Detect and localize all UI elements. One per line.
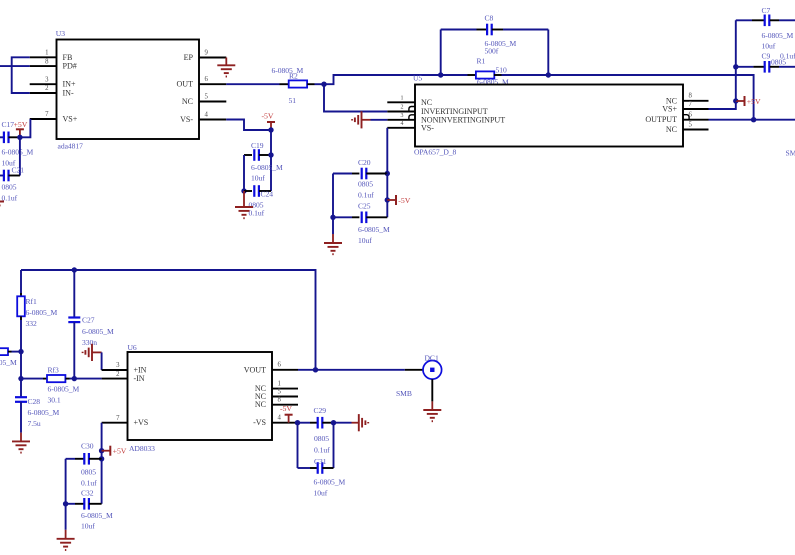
wire lower feedback top — [21, 270, 316, 370]
junction C27 bottom — [72, 376, 77, 381]
label C17 value 10uf — [2, 159, 16, 168]
svg-text:6-0805_M: 6-0805_M — [314, 478, 346, 487]
wire C29 to C31 right — [333, 423, 335, 468]
svg-text:VS-: VS- — [180, 115, 193, 124]
connector DC1 — [423, 361, 442, 380]
wire C20 down left — [332, 174, 334, 218]
junction -5V node — [268, 127, 273, 132]
svg-text:DC1: DC1 — [425, 354, 439, 363]
wire ground to pin 3 — [371, 119, 388, 121]
capacitor C7 — [736, 15, 795, 27]
wire Rg node down — [20, 352, 22, 379]
svg-text:6: 6 — [278, 362, 282, 369]
U5 pin 2 INVERTINGINPUT — [387, 105, 488, 116]
ground below C21 (clipped) — [0, 202, 4, 213]
capacitor C20 — [333, 168, 387, 180]
svg-text:OUT: OUT — [177, 80, 194, 89]
wire VOUT to DC1 — [298, 369, 405, 371]
label DC1 part SMB — [396, 389, 412, 398]
U6 pin 5 NC — [255, 388, 298, 401]
U5 pin 5 NC — [666, 121, 709, 134]
capacitor C32 — [66, 498, 102, 510]
wire C17 to C21 — [19, 137, 21, 175]
svg-text:1: 1 — [401, 96, 404, 102]
U5 pin 6 OUTPUT — [645, 112, 708, 125]
svg-text:+5V: +5V — [113, 447, 127, 456]
power +5V at U5 — [736, 96, 761, 106]
U6 pin 7 +VS — [102, 415, 149, 427]
svg-text:-5V: -5V — [398, 196, 410, 205]
junction feedback right — [546, 72, 551, 77]
label C32 footprint 6-0805_M — [81, 511, 113, 520]
svg-text:PD#: PD# — [63, 62, 77, 71]
label U3 part ada4817 — [58, 142, 84, 151]
ground at U3 EP — [217, 58, 235, 77]
wire FB to IN- — [12, 57, 30, 93]
U3 pin 3 IN+ — [30, 76, 76, 88]
svg-text:0805: 0805 — [358, 180, 373, 189]
label C7 value 10uf — [762, 42, 776, 51]
label C31 designator — [314, 457, 327, 466]
svg-text:C21: C21 — [12, 166, 25, 175]
label C9 footprint 0805 — [771, 58, 786, 67]
svg-text:U5: U5 — [413, 74, 422, 83]
wire input to PD# — [0, 65, 30, 67]
svg-text:0805: 0805 — [81, 468, 96, 477]
label C25 footprint 6-0805_M — [358, 225, 390, 234]
svg-text:VOUT: VOUT — [244, 365, 266, 374]
svg-text:330n: 330n — [82, 338, 97, 347]
label C32 value 10uf — [81, 522, 95, 531]
svg-text:FB: FB — [63, 53, 73, 62]
power +5V at U6 — [99, 446, 127, 456]
junction -VS node — [295, 420, 300, 425]
ground below C32 — [57, 504, 75, 550]
ground below DC1 — [423, 401, 441, 421]
U6 pin 6 VOUT — [244, 362, 298, 375]
label R2 value 51 — [289, 96, 297, 105]
label C17 footprint 6-0805_M — [2, 148, 34, 157]
U6 pin 2 -IN — [102, 371, 145, 383]
capacitor C21 — [0, 170, 20, 182]
label C30 footprint 0805 — [81, 468, 96, 477]
svg-text:NC: NC — [666, 125, 677, 134]
svg-text:3: 3 — [116, 362, 120, 369]
resistor R1 — [441, 71, 549, 78]
svg-text:C30: C30 — [81, 442, 94, 451]
label C8 designator — [485, 14, 494, 23]
svg-text:C27: C27 — [82, 316, 95, 325]
svg-text:500f: 500f — [485, 47, 499, 56]
svg-text:0.1uf: 0.1uf — [249, 209, 265, 218]
wire C17 node to U3 VS+ — [20, 119, 31, 137]
label C25 designator — [358, 202, 371, 211]
ground at U5 pin 3 — [352, 111, 370, 128]
junction C9 node — [733, 64, 738, 69]
svg-text:0.1uf: 0.1uf — [314, 446, 330, 455]
svg-text:7: 7 — [689, 101, 693, 108]
label C20 value 0.1uf — [358, 191, 374, 200]
svg-text:5: 5 — [689, 121, 693, 128]
power -5V at C20 — [385, 195, 411, 205]
capacitor C19 — [244, 149, 271, 161]
svg-text:-5V: -5V — [262, 112, 274, 121]
svg-text:6-0805_M: 6-0805_M — [272, 66, 304, 75]
svg-text:VS+: VS+ — [63, 115, 78, 124]
capacitor C29 — [298, 417, 334, 429]
svg-text:3: 3 — [401, 113, 404, 119]
U6 pin 4 -VS — [253, 415, 298, 428]
op-amp U6 body — [128, 352, 273, 440]
label C28 designator — [28, 397, 41, 406]
svg-text:VS+: VS+ — [662, 105, 677, 114]
svg-text:3: 3 — [45, 76, 49, 83]
junction output node — [751, 117, 756, 122]
svg-text:8: 8 — [45, 58, 49, 65]
svg-text:EP: EP — [184, 53, 194, 62]
label C19 footprint 6-0805_M — [251, 163, 283, 172]
label U3 designator — [56, 29, 65, 38]
label C25 value 10uf — [358, 236, 372, 245]
svg-text:C32: C32 — [81, 489, 94, 498]
svg-text:VS-: VS- — [421, 123, 434, 132]
U6 pin 3 +IN — [102, 362, 147, 374]
label C7 footprint 6-0805_M — [762, 31, 794, 40]
label R2 designator — [289, 72, 298, 81]
wire C19 to C24 right — [270, 155, 272, 191]
label R2 footprint 6-0805_M — [272, 66, 304, 75]
svg-text:NC: NC — [421, 98, 432, 107]
label C30 designator — [81, 442, 94, 451]
svg-text:C7: C7 — [762, 6, 771, 15]
svg-text:6-0805_M: 6-0805_M — [48, 385, 80, 394]
svg-text:OUTPUT: OUTPUT — [645, 115, 677, 124]
svg-text:10uf: 10uf — [251, 174, 265, 183]
svg-text:6-0805_M: 6-0805_M — [251, 163, 283, 172]
wire node A up to feedback — [324, 75, 441, 84]
svg-text:5: 5 — [205, 93, 209, 100]
svg-text:9: 9 — [205, 49, 209, 56]
U5 pin 1 NC — [387, 96, 432, 107]
svg-text:OPA657_D_8: OPA657_D_8 — [414, 148, 457, 157]
U5 pin 8 NC — [666, 93, 709, 106]
junction feedback left — [438, 72, 443, 77]
svg-text:0805: 0805 — [2, 183, 17, 192]
junction C24 left — [241, 188, 246, 193]
power -5V at U6 — [280, 404, 293, 423]
wire U6 +VS down — [101, 423, 103, 504]
svg-text:10uf: 10uf — [314, 489, 328, 498]
U3 pin 2 IN- — [30, 85, 74, 97]
capacitor C8 — [441, 24, 549, 36]
svg-text:7: 7 — [45, 111, 49, 118]
svg-text:6-0805_M: 6-0805_M — [762, 31, 794, 40]
power +5V at C17 — [14, 120, 28, 138]
wire U5 VS+ to +5V — [709, 101, 736, 109]
svg-text:4: 4 — [205, 111, 209, 118]
junction C29 right — [331, 420, 336, 425]
svg-text:C20: C20 — [358, 158, 371, 167]
ground at U6 +IN — [83, 344, 102, 361]
label U6 designator — [128, 343, 137, 352]
label C19 designator — [251, 141, 264, 150]
U6 pin 8 NC — [255, 397, 298, 410]
U3 pin 5 NC — [182, 93, 226, 106]
svg-text:U3: U3 — [56, 29, 65, 38]
svg-text:6-0805_M: 6-0805_M — [0, 358, 17, 367]
svg-text:4: 4 — [401, 121, 404, 127]
svg-text:IN+: IN+ — [63, 80, 76, 89]
label C28 footprint 6-0805_M — [28, 408, 60, 417]
wire C19 to C24 left — [243, 155, 245, 191]
svg-text:R2: R2 — [289, 72, 298, 81]
label C8 footprint 6-0805_M — [485, 39, 517, 48]
svg-text:C24: C24 — [261, 190, 274, 199]
svg-text:R1: R1 — [477, 57, 486, 66]
svg-text:+VS: +VS — [134, 418, 149, 427]
svg-text:30.1: 30.1 — [48, 396, 61, 405]
svg-text:C9: C9 — [762, 52, 771, 61]
svg-text:C8: C8 — [485, 14, 494, 23]
label C21 designator — [12, 166, 25, 175]
resistor Rf1 — [17, 270, 25, 352]
label U6 part AD8033 — [129, 444, 155, 453]
svg-text:2: 2 — [401, 105, 404, 111]
svg-text:51: 51 — [289, 96, 297, 105]
junction Rf3 left — [18, 376, 23, 381]
svg-text:8: 8 — [278, 397, 282, 404]
label C21 value 0.1uf — [2, 194, 18, 203]
junction C30 right — [99, 456, 104, 461]
ground below C24 — [235, 191, 253, 218]
wire +5V rail to C7 C9 — [735, 20, 737, 101]
svg-text:2: 2 — [116, 371, 120, 378]
label C20 designator — [358, 158, 371, 167]
svg-text:332: 332 — [26, 319, 37, 328]
U3 pin 4 VS- — [180, 111, 226, 124]
wire OUT to R2 — [226, 83, 279, 85]
ground right of C29 — [359, 414, 368, 431]
label C29 footprint 0805 — [314, 434, 329, 443]
svg-text:U6: U6 — [128, 343, 137, 352]
wire node A to inverting input — [324, 84, 387, 111]
svg-text:6-0805_M: 6-0805_M — [358, 225, 390, 234]
junction C20 node — [385, 171, 390, 176]
label C29 value 0.1uf — [314, 446, 330, 455]
label C24 footprint 0805 — [249, 201, 264, 210]
ground below C25 — [324, 217, 342, 254]
label C17 designator — [2, 120, 15, 129]
U3 pin 6 OUT — [177, 76, 227, 89]
label U5 part OPA657_D_8 — [414, 148, 457, 157]
label C21 footprint 0805 — [2, 183, 17, 192]
U3 pin 1 FB — [30, 50, 73, 62]
svg-text:0.1uf: 0.1uf — [81, 479, 97, 488]
svg-text:IN-: IN- — [63, 89, 74, 98]
svg-text:10uf: 10uf — [358, 236, 372, 245]
junction C17 node — [17, 135, 22, 140]
svg-text:+5V: +5V — [747, 97, 761, 106]
capacitor C27 — [68, 270, 80, 379]
svg-text:1: 1 — [45, 50, 48, 57]
label C19 value 10uf — [251, 174, 265, 183]
svg-text:NC: NC — [182, 97, 193, 106]
junction VOUT node — [313, 367, 318, 372]
wire ground to +IN — [101, 352, 103, 370]
capacitor C9 — [736, 61, 795, 73]
capacitor C25 — [333, 212, 387, 224]
U6 pin 1 NC — [255, 380, 298, 393]
svg-text:6-0805_M: 6-0805_M — [26, 308, 58, 317]
op-amp U5 body — [415, 85, 683, 147]
svg-text:0.1uf: 0.1uf — [358, 191, 374, 200]
power -5V at U3 — [262, 112, 276, 131]
junction C32 left — [63, 501, 68, 506]
U5 pin 3 NONINVERTINGINPUT — [387, 113, 505, 124]
label Rf1 footprint 6-0805_M — [26, 308, 58, 317]
svg-text:6-0805_M: 6-0805_M — [2, 148, 34, 157]
label C9 value 0.1uf — [780, 52, 795, 61]
label Rf3 designator — [48, 366, 59, 375]
label SMB right connector — [786, 149, 795, 158]
junction C27 top — [72, 267, 77, 272]
label R1 designator — [477, 57, 486, 66]
U5 pin 4 VS- — [387, 121, 434, 132]
wire C29 to ground — [334, 422, 359, 424]
capacitor C31 — [298, 462, 334, 474]
label C27 value 330n — [82, 338, 97, 347]
label R1 footprint 6-0805_M — [477, 78, 509, 87]
svg-text:7.5u: 7.5u — [28, 419, 41, 428]
svg-text:AD8033: AD8033 — [129, 444, 155, 453]
wire C29 to C31 left — [297, 423, 299, 468]
label C32 designator — [81, 489, 94, 498]
wire feedback right riser — [547, 30, 549, 76]
label Rf3 value 30.1 — [48, 396, 61, 405]
svg-text:4: 4 — [278, 415, 282, 422]
svg-text:6-0805_M: 6-0805_M — [81, 511, 113, 520]
junction Rg node — [18, 349, 23, 354]
svg-text:8: 8 — [689, 93, 693, 100]
label C27 footprint 6-0805_M — [82, 327, 114, 336]
svg-text:ada4817: ada4817 — [58, 142, 84, 151]
resistor Rg (clipped at edge) — [0, 348, 21, 355]
label C20 footprint 0805 — [358, 180, 373, 189]
svg-text:6: 6 — [689, 112, 693, 119]
svg-text:C17: C17 — [2, 120, 15, 129]
svg-text:10uf: 10uf — [762, 42, 776, 51]
resistor Rf3 — [21, 375, 102, 382]
svg-text:-5V: -5V — [280, 404, 292, 413]
label C31 value 10uf — [314, 489, 328, 498]
label Rg footprint (clipped) — [0, 358, 17, 367]
label U5 designator — [413, 74, 422, 83]
svg-text:1: 1 — [278, 380, 281, 387]
label C8 value 500f — [485, 47, 499, 56]
label Rf3 footprint 6-0805_M — [48, 385, 80, 394]
svg-text:6-0805_M: 6-0805_M — [28, 408, 60, 417]
junction C25 left — [330, 215, 335, 220]
svg-text:0805: 0805 — [314, 434, 329, 443]
wire -5V node down — [270, 130, 272, 155]
svg-text:C19: C19 — [251, 141, 264, 150]
wire C30 to C32 left — [65, 459, 67, 504]
label C30 value 0.1uf — [81, 479, 97, 488]
label C7 designator — [762, 6, 771, 15]
svg-text:C31: C31 — [314, 457, 327, 466]
svg-text:+5V: +5V — [14, 120, 28, 129]
U3 pin 8 PD# — [30, 58, 77, 70]
wire R2 to node — [315, 83, 325, 85]
svg-text:6-0805_M: 6-0805_M — [82, 327, 114, 336]
junction node A — [321, 82, 326, 87]
label C9 designator — [762, 52, 771, 61]
label R1 value 510 — [496, 66, 507, 75]
svg-text:C28: C28 — [28, 397, 41, 406]
wire feedback left riser — [440, 30, 442, 76]
svg-text:Rf3: Rf3 — [48, 366, 59, 375]
U3 pin 7 VS+ — [30, 111, 78, 123]
junction +5V node — [733, 98, 738, 103]
svg-text:C29: C29 — [314, 406, 327, 415]
U5 pin 7 VS+ — [662, 101, 708, 114]
capacitor C24 — [244, 185, 271, 197]
svg-text:-IN: -IN — [134, 374, 145, 383]
wire DC1 to ground — [431, 379, 433, 401]
DC1 pin stub — [405, 369, 423, 371]
op-amp U3 body — [57, 40, 200, 140]
svg-text:NC: NC — [255, 400, 266, 409]
ground below C28 — [12, 433, 30, 453]
capacitor C30 — [66, 453, 102, 465]
svg-text:C25: C25 — [358, 202, 371, 211]
svg-text:10uf: 10uf — [81, 522, 95, 531]
svg-text:Rf1: Rf1 — [26, 297, 37, 306]
label C29 designator — [314, 406, 327, 415]
label C31 footprint 6-0805_M — [314, 478, 346, 487]
label C24 value 0.1uf — [249, 209, 265, 218]
svg-text:SMB: SMB — [786, 149, 795, 158]
svg-text:-VS: -VS — [253, 418, 266, 427]
wire feedback to output — [548, 75, 753, 120]
label C28 value 7.5u — [28, 419, 41, 428]
svg-text:510: 510 — [496, 66, 507, 75]
capacitor C28 — [15, 379, 27, 433]
label C27 designator — [82, 316, 95, 325]
wire U5 VS- down — [386, 128, 388, 174]
svg-text:2: 2 — [45, 85, 49, 92]
svg-text:0805: 0805 — [771, 58, 786, 67]
U3 pin 9 EP — [184, 49, 227, 62]
svg-text:6: 6 — [205, 76, 209, 83]
label Rf1 value 332 — [26, 319, 37, 328]
wire U5 output — [709, 119, 795, 121]
capacitor C17 — [0, 132, 20, 144]
svg-text:7: 7 — [116, 415, 120, 422]
junction C19 right — [268, 152, 273, 157]
label Rf1 designator — [26, 297, 37, 306]
resistor R2 — [280, 80, 315, 87]
wire C20 down right — [386, 174, 388, 218]
label DC1 designator — [425, 354, 439, 363]
label C24 designator — [261, 190, 274, 199]
svg-text:SMB: SMB — [396, 389, 412, 398]
wire U3 VS- to -5V node — [226, 120, 271, 131]
